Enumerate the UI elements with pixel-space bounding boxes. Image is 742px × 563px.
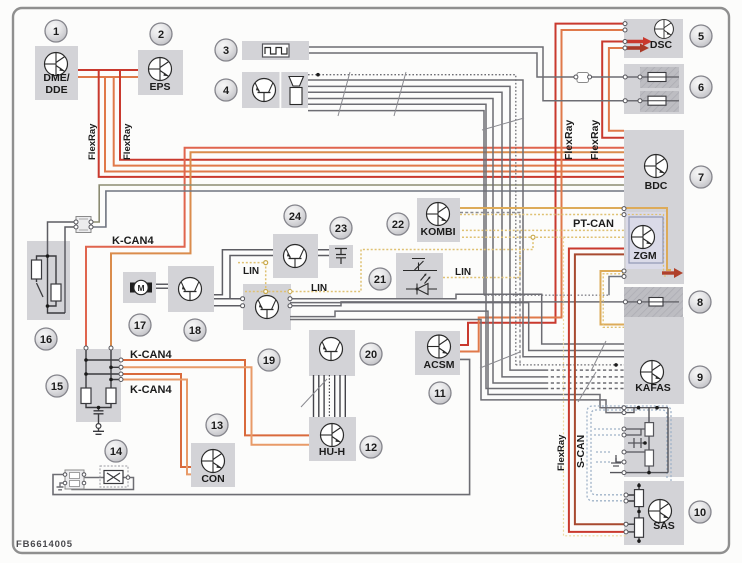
connector above box16 — [74, 217, 93, 233]
wire terminator slate to connector — [92, 191, 624, 227]
fuse box8 — [623, 298, 663, 307]
terminal circles box15 — [84, 346, 88, 350]
svg-text:DDE: DDE — [45, 84, 67, 96]
svg-text:14: 14 — [110, 446, 123, 458]
box BDC + ZGM column — [624, 130, 684, 284]
wire LIN yellow KOMBI to ZGM — [460, 214, 624, 216]
wire tan KOMBI to ZGM — [460, 207, 624, 209]
icon transistor KAFAS — [641, 361, 664, 384]
network resistor chain — [610, 408, 668, 473]
wire box4 output3 to KAFAS dashed row — [308, 92, 545, 377]
S-CAN dashed border inner — [591, 410, 667, 495]
svg-text:CON: CON — [201, 473, 224, 485]
box U1 DME/DDE — [35, 46, 78, 100]
box14 X lamp — [100, 466, 130, 487]
wire LIN yellow row a — [462, 229, 624, 231]
svg-text:ACSM: ACSM — [424, 359, 455, 371]
box 13 CON — [191, 443, 235, 487]
icon switch box21 — [403, 259, 437, 271]
wire box16 internal right branch — [48, 256, 66, 313]
wire K-CAN4 box15 to HU-H salmon — [121, 367, 309, 445]
box KOMBI — [417, 198, 460, 242]
wire box24 to box18 lower — [214, 256, 273, 299]
icon motor box17 — [130, 280, 152, 294]
wire box17 to box18 pair — [156, 284, 168, 288]
box 20 — [309, 330, 355, 376]
wire LIN yellow box18 top — [238, 263, 266, 292]
icon transistor DSC — [655, 20, 674, 39]
callout 12 — [360, 436, 382, 458]
slash marks vertical bundle — [482, 118, 524, 130]
wire FlexRay DME red to BDC — [99, 70, 624, 177]
LIN rings — [264, 261, 268, 265]
wire ACSM to bottom loop gray — [53, 359, 470, 494]
wire PT-CAN dark red ZGM to SAS — [575, 254, 626, 524]
svg-text:SAS: SAS — [653, 520, 675, 532]
svg-text:10: 10 — [694, 507, 706, 519]
svg-text:2: 2 — [158, 29, 164, 41]
icon transistor ZGM — [632, 226, 655, 249]
callout 2 — [150, 23, 172, 45]
wire FlexRay pair A orange DSC to ACSM — [460, 30, 624, 352]
resistor SAS R1 — [635, 490, 644, 507]
wire slate step to ZGM lower terminal — [609, 277, 624, 296]
wire box14 ground stub — [57, 483, 66, 490]
box 17 motor — [123, 272, 156, 303]
wire FlexRay DME orange to BDC — [105, 77, 624, 172]
icon transistor EPS — [149, 58, 172, 81]
callout 17 — [129, 314, 151, 336]
wire FlexRay pair A red DSC to ACSM — [460, 24, 624, 345]
icon transistor BDC — [645, 155, 668, 178]
wire K-CAN4 dark orange BDC to box15 — [111, 152, 624, 347]
icon transistor box18 — [179, 278, 202, 301]
box ACSM — [415, 331, 460, 375]
svg-text:13: 13 — [211, 420, 223, 432]
callout 22 — [387, 213, 409, 235]
svg-text:8: 8 — [697, 297, 703, 309]
wire box15 bottom join — [86, 404, 111, 435]
dots network — [637, 406, 641, 410]
svg-text:PT-CAN: PT-CAN — [573, 218, 614, 230]
icon transistor SAS — [649, 500, 672, 523]
slash marks box4 rows — [338, 72, 406, 116]
svg-text:BDC: BDC — [645, 180, 668, 192]
wire box18 to box19 a — [214, 298, 243, 300]
callout 18 — [184, 319, 206, 341]
icon transistor ACSM — [428, 335, 451, 358]
S-CAN dashed stubs — [594, 429, 622, 462]
box 16 terminator — [27, 241, 70, 320]
callout 24 — [284, 205, 306, 227]
callout 11 — [429, 382, 451, 404]
box SAS — [624, 481, 684, 545]
svg-text:11: 11 — [434, 388, 446, 400]
slash marks KAFAS solid rows — [591, 341, 606, 371]
svg-text:21: 21 — [374, 274, 386, 286]
callout 15 — [46, 375, 68, 397]
svg-text:17: 17 — [134, 320, 146, 332]
wire box4 output5 to KAFAS dashed row — [308, 104, 545, 388]
icon transistor box19 — [256, 296, 279, 319]
icon transistor box20 — [320, 338, 343, 361]
slash ribbon — [301, 379, 327, 407]
svg-text:16: 16 — [40, 334, 52, 346]
svg-text:1: 1 — [53, 26, 59, 38]
resistor box16 R2 — [51, 284, 61, 301]
terminal circles DSC — [623, 22, 627, 26]
wire box19 L1 to KAFAS row 344 — [290, 294, 624, 344]
svg-text:DSC: DSC — [650, 39, 673, 51]
svg-text:LIN: LIN — [455, 267, 471, 278]
wire FlexRay pair B orange DSC to BDC — [609, 48, 624, 131]
box 19 — [243, 284, 291, 330]
wire K-CAN4 box15 to CON salmon — [121, 380, 191, 475]
svg-text:3: 3 — [223, 45, 229, 57]
box 4 control unit with injector — [242, 72, 308, 108]
wire box19 L2 to KAFAS row 350.5 — [290, 303, 624, 351]
box 24 — [273, 234, 318, 278]
callout 9 — [689, 366, 711, 388]
callout 3 — [215, 39, 237, 61]
network ground — [611, 455, 621, 466]
network top wire — [624, 408, 668, 413]
network side links — [616, 429, 645, 462]
wire box19 to box8 fuse — [290, 302, 679, 306]
svg-text:FlexRay: FlexRay — [589, 120, 601, 160]
box network panel — [624, 417, 684, 477]
box 3 pulse sensor — [242, 41, 309, 60]
svg-text:15: 15 — [51, 381, 63, 393]
svg-text:FB6614005: FB6614005 — [16, 539, 73, 550]
wire box4 dotted output to KAFAS dotted row — [308, 75, 516, 365]
terminal circles box19 — [241, 297, 245, 301]
icon transistor KOMBI — [427, 203, 450, 226]
svg-text:FlexRay: FlexRay — [87, 123, 98, 160]
wire FlexRay EPS orange to BDC — [114, 77, 624, 166]
svg-text:6: 6 — [698, 82, 704, 94]
callout 8 — [689, 291, 711, 313]
icon transistor CON — [202, 450, 225, 473]
callout 10 — [689, 501, 711, 523]
arrow ZGM output — [662, 271, 675, 274]
fuse 1 box6 — [623, 73, 666, 82]
wire box3 upper to fuse box6 lower — [309, 47, 679, 101]
callout 4 — [215, 79, 237, 101]
callout 1 — [45, 20, 67, 42]
wire box4 output1 to KAFAS solid row — [308, 80, 624, 357]
svg-text:5: 5 — [698, 31, 704, 43]
wire terminator olive to connector — [92, 185, 624, 222]
box 6 fuse holder — [624, 64, 684, 114]
svg-text:12: 12 — [365, 442, 377, 454]
callout 19 — [258, 349, 280, 371]
wire box18 to box19 b — [214, 305, 243, 307]
ground circle box15 — [96, 424, 101, 429]
terminal circles SAS — [624, 493, 628, 497]
icon box4 transistor — [253, 79, 276, 102]
wire FlexRay DME-EPS link orange — [78, 76, 138, 78]
svg-text:K-CAN4: K-CAN4 — [130, 349, 172, 361]
svg-text:K-CAN4: K-CAN4 — [130, 384, 172, 396]
wire box15 internal links — [86, 347, 121, 388]
wire box14 loop — [72, 478, 134, 490]
svg-text:18: 18 — [189, 325, 201, 337]
ZGM inner panel — [626, 212, 666, 269]
wire connector to box16 left — [48, 222, 76, 313]
terminal circles network — [622, 406, 626, 410]
wire K-CAN4 orange BDC to box15 — [86, 148, 624, 347]
callout 5 — [690, 25, 712, 47]
wire box19 L3 to S-CAN network top — [290, 311, 624, 408]
wire FlexRay DME-EPS link red — [78, 69, 138, 71]
S-CAN dashed border outer — [587, 406, 671, 501]
icon transistor box24 — [284, 245, 307, 268]
callout 21 — [369, 268, 391, 290]
callout 23 — [330, 217, 352, 239]
callout 16 — [35, 328, 57, 350]
wire K-CAN4 box15 to CON orange — [121, 374, 191, 467]
icon transistor DME — [45, 53, 68, 76]
callout 6 — [690, 76, 712, 98]
wire box16 internal left branch — [37, 256, 48, 282]
wire tan ZGM to KAFAS — [601, 271, 625, 325]
wire LIN yellow through box19 up to ZGM row — [245, 237, 533, 291]
svg-text:FlexRay: FlexRay — [563, 120, 575, 160]
svg-text:EPS: EPS — [149, 81, 170, 93]
svg-text:LIN: LIN — [243, 266, 259, 277]
wire LIN yellow box21 join — [443, 250, 520, 278]
svg-text:7: 7 — [698, 172, 704, 184]
box14 connector — [63, 470, 86, 489]
svg-text:9: 9 — [697, 372, 703, 384]
svg-text:KOMBI: KOMBI — [421, 226, 456, 238]
callout 20 — [360, 343, 382, 365]
callout 13 — [206, 414, 228, 436]
box 23 capacitor — [329, 245, 353, 268]
box 18 — [168, 266, 214, 312]
wire box3 lower to fuse box6 upper — [309, 53, 679, 77]
resistor network R2 — [645, 450, 654, 466]
svg-text:KAFAS: KAFAS — [635, 382, 671, 394]
terminal circles ZGM — [622, 207, 626, 211]
wire tan wrap around ZGM — [624, 208, 671, 270]
fuse 2 box6 — [623, 96, 666, 105]
svg-text:22: 22 — [392, 219, 404, 231]
wire LIN yellow ZGM to KAFAS companion — [603, 274, 624, 328]
resistor box16 R1 — [32, 260, 42, 279]
DSC arrow bold dark red — [627, 46, 641, 50]
dots box15 — [84, 358, 88, 362]
wire FlexRay pair B red DSC to BDC — [602, 42, 624, 138]
svg-text:S-CAN: S-CAN — [575, 435, 587, 468]
ribbon cable box20 to HU-H — [314, 375, 346, 417]
box U2 EPS — [138, 50, 183, 95]
network H symbol — [628, 438, 645, 448]
svg-text:24: 24 — [289, 211, 302, 223]
svg-text:K-CAN4: K-CAN4 — [112, 235, 154, 247]
DSC arrow bold red — [627, 40, 644, 44]
wire box24 to box18 upper — [214, 250, 273, 295]
wire box4 output6 to ZGM dotted — [308, 111, 484, 296]
box KAFAS — [624, 317, 684, 404]
svg-text:4: 4 — [223, 85, 230, 97]
svg-text:23: 23 — [335, 223, 347, 235]
dot box4 dotted — [316, 73, 320, 77]
icon box3 pulse — [263, 44, 290, 57]
resistor SAS R2 — [635, 518, 644, 537]
wire box4 output4 to KAFAS dashed row — [308, 99, 545, 384]
svg-text:LIN: LIN — [311, 283, 327, 294]
svg-text:HU-H: HU-H — [319, 446, 345, 458]
icon capacitor box23 — [335, 249, 347, 265]
box 15 terminator — [76, 349, 121, 422]
callout 7 — [690, 166, 712, 188]
slash marks KAFAS dashed rows — [578, 372, 596, 402]
wire K-CAN4 box15 to HU-H orange — [121, 360, 309, 435]
icon LED box21 — [406, 274, 437, 295]
box 21 switch/LED — [396, 253, 443, 299]
svg-text:19: 19 — [263, 355, 275, 367]
svg-text:M: M — [137, 283, 144, 293]
dots SAS — [637, 484, 641, 488]
svg-text:20: 20 — [365, 349, 377, 361]
icon transistor HU-H — [321, 424, 344, 447]
wire PT-CAN red ZGM to SAS — [569, 249, 626, 532]
wire KOMBI dashed gray join dotted row — [460, 213, 520, 365]
wire LIN pale yellow companion to SAS — [564, 237, 627, 536]
wire box4 output2 to KAFAS dashed row — [308, 86, 545, 370]
switch box16 — [37, 283, 44, 297]
wire slate wrap around ZGM — [624, 215, 668, 277]
svg-text:ZGM: ZGM — [633, 250, 657, 262]
resistor network R1 — [645, 423, 654, 437]
wire FlexRay EPS red to BDC — [120, 70, 624, 160]
resistor box15 RL — [81, 388, 91, 404]
svg-text:FlexRay: FlexRay — [556, 434, 567, 471]
wire LIN yellow row b — [462, 236, 624, 238]
slash marks staircase — [480, 352, 520, 368]
resistor box15 RR — [106, 388, 116, 404]
wire box19 L4 to S-CAN network second — [290, 320, 624, 413]
box HU-H — [309, 417, 356, 461]
box 8 fuse — [624, 287, 683, 317]
SAS resistor chain — [628, 483, 639, 543]
box DSC — [624, 19, 683, 58]
icon box4 injector — [289, 77, 304, 105]
svg-text:DME/: DME/ — [43, 72, 69, 84]
callout 14 — [105, 440, 127, 462]
connector on fuse wire — [574, 73, 592, 83]
svg-text:FlexRay: FlexRay — [122, 123, 133, 160]
wire box24 to box23 pair — [318, 250, 329, 256]
dots box16 — [46, 254, 50, 258]
